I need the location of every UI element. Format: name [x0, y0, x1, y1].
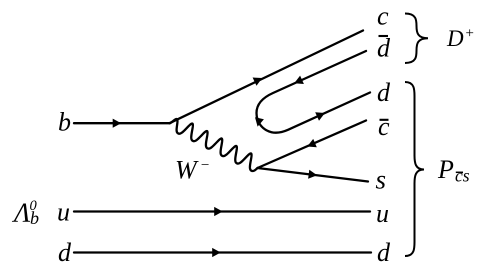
svg-text:b: b: [58, 108, 71, 137]
svg-text:D: D: [446, 26, 464, 51]
svg-text:b: b: [30, 208, 39, 228]
svg-text:Λ: Λ: [11, 198, 31, 228]
svg-text:c: c: [378, 112, 390, 141]
svg-text:d: d: [377, 238, 391, 267]
svg-text:d: d: [377, 34, 391, 63]
svg-text:u: u: [57, 198, 70, 227]
svg-text:s: s: [376, 165, 387, 195]
svg-text:P: P: [437, 155, 454, 184]
svg-text:+: +: [465, 26, 475, 42]
svg-text:c: c: [377, 2, 389, 31]
svg-text:−: −: [200, 158, 210, 174]
svg-text:d: d: [377, 78, 391, 107]
svg-text:W: W: [175, 156, 199, 185]
svg-text:u: u: [376, 199, 389, 228]
svg-text:d: d: [58, 238, 72, 267]
svg-text:cs: cs: [455, 165, 470, 185]
